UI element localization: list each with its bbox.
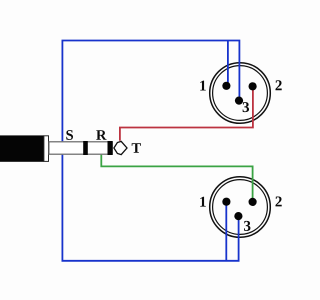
XLR connector J2 (bottom) inner shell circle: [213, 180, 268, 235]
wire: green ring wire from plug R to J2 pin 2: [101, 155, 252, 202]
TRS insulator band 2 (ring/tip separator): [108, 141, 113, 155]
TRS insulator band 1 (sleeve/ring separator): [83, 141, 88, 155]
wire: red tip wire from plug T to J1 pin 2: [120, 86, 253, 141]
TRS plug P1 body (handle): [0, 135, 44, 161]
J2 pin 3: [234, 212, 242, 220]
TRS tip arrow: [114, 141, 127, 154]
J1 pin 3: [235, 97, 243, 105]
TRS plug shaft (sleeve/ring/tip barrel): [49, 142, 113, 154]
J2 pin 1: [222, 198, 230, 206]
wire: blue branch from bottom run up to J2 pin 1: [225, 202, 227, 261]
J2 label 2: [275, 196, 281, 206]
label R (ring): [96, 130, 106, 139]
J2 label 1: [200, 197, 206, 207]
XLR connector J1 (top) inner shell circle: [213, 66, 268, 121]
XLR connector J1 (top) outer shell circle: [210, 63, 271, 124]
J1 label 1: [200, 81, 206, 91]
wire: blue sleeve wire from plug S down and across to J2 pin 3: [62, 155, 238, 261]
TRS plug collar: [44, 136, 49, 162]
XLR connector J2 (bottom) outer shell circle: [210, 177, 271, 238]
J1 pin 2: [249, 82, 257, 90]
J1 pin 1: [222, 82, 230, 90]
J2 label 3: [244, 221, 250, 231]
J1 label 2: [275, 80, 281, 90]
J1 label 3: [243, 102, 249, 112]
wire: blue branch from top run down to J1 pin 1: [227, 41, 229, 87]
wire: blue sleeve wire from plug S up and across to J1 pin 3: [62, 41, 239, 142]
label S (sleeve): [66, 130, 73, 140]
J2 pin 2: [249, 198, 257, 206]
label T (tip): [132, 143, 141, 152]
